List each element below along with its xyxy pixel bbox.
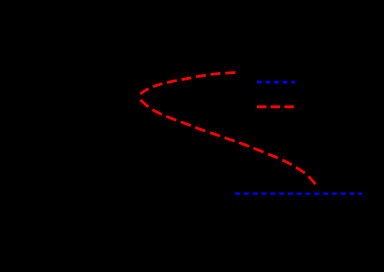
- red dashed fold curve, lower branch: [138, 97, 316, 184]
- legend sample: red dashed: [257, 105, 295, 108]
- red dashed fold curve, upper branch: [138, 73, 236, 97]
- legend sample: blue dashed: [257, 81, 295, 84]
- blue dashed equilibrium line: [235, 193, 362, 195]
